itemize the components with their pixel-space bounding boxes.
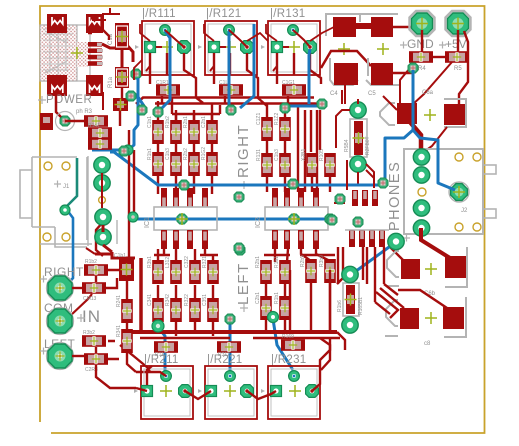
- wire R5 down-left: [412, 62, 452, 105]
- resistor C1Z1: [256, 113, 273, 141]
- IC1 top pads: [161, 188, 208, 207]
- resistor R321: [202, 256, 219, 284]
- svg-text:R5: R5: [454, 66, 462, 72]
- resistor R105: [319, 149, 336, 177]
- resistor R1b1: [147, 148, 164, 176]
- wire horizontal bus y103: [155, 102, 320, 105]
- capacitor C1L1 under VR121: [219, 80, 243, 96]
- diode D1 (left edge): [40, 113, 53, 130]
- donut right of IC2: [388, 233, 404, 249]
- wire left grid to bottom bus: [158, 322, 213, 336]
- wire top into J2 pad1: [419, 137, 423, 157]
- J1 pad B: [94, 175, 110, 191]
- svg-text:C5: C5: [368, 91, 376, 97]
- resistor R4 (GND jumper): [409, 51, 433, 72]
- wire J2 pad4 down: [421, 228, 450, 258]
- C8 cross: [425, 312, 437, 324]
- svg-text:R1b6: R1b6: [337, 300, 343, 312]
- J2 drill holes: [418, 153, 481, 231]
- plus RIGHT in: [40, 276, 47, 283]
- wire IC1 pads down to grid: [158, 249, 213, 298]
- wire mid columns: [267, 104, 330, 192]
- resistor C2b1: [201, 116, 218, 144]
- plus LEFT: [240, 304, 248, 312]
- capacitor C5 silkscreen: [330, 58, 400, 85]
- plus J1: [54, 181, 61, 188]
- svg-text:C341: C341: [147, 294, 153, 306]
- wire inside VR231b: [273, 30, 310, 71]
- resistor X2B1: [301, 149, 318, 177]
- wire bottom bus 1: [130, 330, 337, 334]
- wire R2FB region: [336, 90, 374, 184]
- plus LEFT in: [40, 348, 47, 355]
- svg-text:R1b1: R1b1: [274, 292, 280, 304]
- wire diagonals to C8: [375, 265, 398, 314]
- wire red chain left of VR121: [204, 24, 268, 41]
- resistor R0a: [84, 115, 108, 127]
- via L2: [353, 217, 363, 227]
- via V5: [408, 63, 418, 73]
- resistor C341: [147, 294, 164, 322]
- wire R4 down-left: [400, 62, 415, 103]
- via ring mid-bottom: [268, 312, 279, 323]
- svg-text:R2FB0T: R2FB0T: [365, 136, 371, 155]
- svg-text:R3b1: R3b1: [147, 256, 153, 268]
- resistor C1b3: [165, 148, 182, 176]
- svg-text:IN: IN: [82, 307, 101, 326]
- via at left grid: [152, 320, 164, 332]
- svg-text:C1b1: C1b1: [147, 116, 153, 128]
- resistor R1G2: [201, 147, 218, 176]
- wire VR111 pads down: [150, 53, 196, 84]
- wire into C8: [376, 288, 404, 318]
- wire thick left column pair: [129, 130, 134, 258]
- resistor R142: [88, 138, 112, 150]
- svg-text:IC1: IC1: [144, 217, 151, 228]
- wire stair to VR211: [120, 345, 150, 372]
- via A: [137, 105, 147, 115]
- trimmer VR221: [198, 354, 257, 419]
- resistor R1c1b: [274, 292, 291, 320]
- wire left diagonal: [86, 173, 102, 254]
- wire right column to VR231: [290, 270, 345, 370]
- svg-text:IC2: IC2: [255, 217, 262, 228]
- svg-text:|/R211: |/R211: [144, 354, 179, 366]
- C6a silkscreen: [380, 99, 466, 127]
- wire into C6b left: [390, 247, 405, 262]
- svg-text:R241: R241: [116, 295, 122, 307]
- X1 fingers silkscreen: [97, 43, 103, 66]
- svg-text:L312: L312: [165, 257, 171, 268]
- resistor R322: [184, 294, 201, 322]
- wire blue to VR231: [273, 319, 293, 370]
- svg-text:C4: C4: [330, 91, 338, 97]
- J2 pad 4: [413, 220, 429, 236]
- resistor R341: [116, 325, 133, 353]
- resistor L312: [165, 257, 182, 284]
- wire blue J1 to RIGHT pad: [66, 210, 73, 286]
- IC2 body: [265, 207, 328, 230]
- wire C5 to via: [393, 68, 413, 73]
- wire J1 pads down-right: [95, 225, 135, 258]
- via I: [325, 214, 335, 224]
- donut above R2FB: [350, 102, 366, 118]
- wire +5V pad down: [457, 30, 459, 52]
- capacitor C1a: [108, 23, 129, 50]
- IC1 bottom pads: [161, 230, 208, 249]
- resistor R5 (+5V jumper): [445, 51, 469, 72]
- resistor R2b2: [183, 148, 200, 176]
- svg-text:|/R131: |/R131: [270, 8, 305, 20]
- resistor R2c1: [255, 256, 272, 284]
- wire bus drop to R2b1: [172, 97, 220, 120]
- wire LEFT pad to C: [72, 355, 84, 357]
- wire blue VR131 right pad down: [309, 49, 310, 104]
- X1 shield pad bottom-left: [47, 75, 67, 96]
- X1 centre cross: [71, 47, 83, 59]
- IC2 top pads: [272, 188, 319, 207]
- X1 shield pad bottom-right: [86, 75, 103, 96]
- wire X1 to C1a: [102, 44, 133, 62]
- resistor R3b2 in: [82, 330, 106, 347]
- wire top VR111 left: [134, 24, 150, 80]
- svg-text:R131: R131: [256, 149, 262, 161]
- svg-text:RIGHT: RIGHT: [235, 124, 252, 178]
- svg-text:R1b1: R1b1: [274, 256, 280, 268]
- wire blue C6a to phones: [383, 130, 455, 190]
- cross C5: [377, 43, 389, 55]
- svg-text:CM13: CM13: [83, 296, 97, 302]
- via E: [317, 99, 327, 109]
- wire blue left column: [92, 78, 138, 150]
- resistor R1a: [108, 67, 129, 88]
- svg-text:R5B4: R5B4: [344, 139, 350, 152]
- C6b silkscreen: [386, 247, 467, 287]
- X1 shield pad top-right: [86, 14, 103, 33]
- svg-text:R2b1: R2b1: [255, 256, 261, 268]
- svg-text:X2B1: X2B1: [301, 149, 307, 161]
- resistor R169: [281, 334, 305, 351]
- J1 pad D: [95, 229, 111, 245]
- via at left grid right: [225, 314, 235, 324]
- wire C6a plus: [410, 122, 421, 150]
- via F: [119, 146, 129, 156]
- resistor R241: [116, 295, 133, 323]
- C8 pads: [400, 307, 464, 329]
- svg-text:R3b9: R3b9: [319, 255, 325, 267]
- IC1 body: [154, 207, 217, 230]
- resistor R2bV: [300, 254, 317, 283]
- svg-text:C1b3: C1b3: [165, 148, 171, 160]
- svg-text:R4: R4: [418, 66, 426, 72]
- svg-text:+5V: +5V: [445, 37, 467, 51]
- plus near PHONES: [403, 235, 410, 242]
- J1 body bottom: [40, 156, 117, 246]
- C6b cross: [425, 263, 437, 275]
- wire blue J2 to C6b region: [352, 242, 396, 274]
- wire blue C6a vertical: [412, 70, 415, 132]
- via C: [226, 105, 236, 115]
- via H: [288, 179, 298, 189]
- via J: [234, 192, 244, 202]
- via N: [335, 194, 345, 204]
- svg-text:R321: R321: [202, 256, 208, 268]
- wire C6a right pad down: [425, 127, 447, 151]
- svg-text:R322: R322: [184, 294, 190, 306]
- capacitor C1b1 in (vertical): [114, 253, 134, 281]
- wire blue VR121 to via: [240, 24, 254, 108]
- X1 signal pads: [88, 42, 102, 66]
- C6a cross: [424, 109, 436, 121]
- wire POWER to via: [56, 92, 62, 118]
- wire C8 right top: [398, 290, 447, 308]
- svg-text:R3b2: R3b2: [83, 330, 95, 336]
- plus RIGHT: [240, 181, 248, 189]
- wire to VR211 region: [96, 365, 150, 388]
- resistor C1b3b: [274, 149, 291, 177]
- wire blue via to VR211: [158, 327, 165, 374]
- via B: [153, 107, 163, 117]
- svg-text:R1a: R1a: [108, 76, 114, 88]
- cross C4: [338, 43, 350, 55]
- X1 shield pad top-left: [47, 14, 67, 33]
- resistor R1b2: [165, 116, 182, 144]
- wire mid-bottom grid columns: [266, 282, 330, 332]
- J1 pad C: [95, 209, 111, 225]
- IC1 centre via: [176, 213, 188, 225]
- wire blue diag to bus: [110, 152, 383, 185]
- capacitor C4 pads: [333, 17, 393, 37]
- resistor R131b: [256, 149, 273, 177]
- svg-text:C1R1: C1R1: [156, 80, 169, 86]
- svg-text:|/R121: |/R121: [206, 8, 241, 20]
- via D: [280, 103, 290, 113]
- via L: [327, 215, 337, 225]
- svg-text:R1b1: R1b1: [147, 148, 153, 160]
- wire X1 bundle: [88, 30, 109, 40]
- wire inside VR121: [210, 30, 247, 71]
- wire grid columns right channel: [158, 104, 212, 194]
- resistor R342: [165, 294, 182, 322]
- wire +5V right drop: [459, 31, 468, 104]
- svg-text:|/R221: |/R221: [207, 354, 242, 366]
- wire cap row to resistor grid: [158, 96, 288, 122]
- wire inside VR111: [146, 30, 184, 71]
- wire RIGHT pad to C: [72, 287, 84, 289]
- wire bottom bus 2: [140, 337, 340, 339]
- svg-text:R2b1: R2b1: [183, 116, 189, 128]
- wire C4 to GND pad: [393, 26, 412, 28]
- resistor R312: [217, 341, 241, 358]
- wire VR211 left entry: [136, 372, 166, 391]
- via V1: [56, 112, 75, 131]
- IC2 right pads upper group: [352, 190, 378, 206]
- wire blue VR111 top to via: [160, 31, 170, 110]
- via G: [179, 180, 189, 190]
- resistor C322: [184, 256, 201, 284]
- wire blue via bus top: [285, 105, 322, 108]
- wire blue VR121 top to via: [228, 31, 231, 108]
- svg-text:R141: R141: [88, 123, 100, 129]
- capacitor C5 pads: [334, 63, 393, 85]
- svg-text:|/R111: |/R111: [142, 8, 176, 20]
- capacitor C4 silkscreen: [326, 14, 398, 36]
- svg-text:R341: R341: [116, 325, 122, 337]
- wire C1a to R1a: [121, 50, 124, 67]
- J1 body silkscreen: [20, 157, 87, 247]
- svg-text:R1b2: R1b2: [165, 116, 171, 128]
- pad LEFT: [47, 343, 74, 370]
- donut below R165: [342, 317, 358, 333]
- via above LEFT: [235, 245, 245, 255]
- IC2 centre via: [288, 213, 300, 225]
- J2 pad 1: [413, 149, 429, 165]
- resistor R112: [154, 341, 178, 358]
- capacitor R1b2 in: [84, 259, 108, 276]
- resistor R2b1: [183, 116, 200, 144]
- svg-text:C6a: C6a: [422, 90, 434, 96]
- donut above R165: [342, 266, 358, 282]
- svg-text:GND: GND: [407, 37, 434, 51]
- wires input network: [96, 270, 136, 372]
- svg-text:C322: C322: [184, 256, 190, 268]
- J1 pad A: [94, 157, 110, 173]
- wire blue via to VR221: [229, 320, 232, 374]
- svg-text:R1b2: R1b2: [85, 259, 97, 265]
- pad COM: [47, 308, 74, 335]
- wire VR121 pads down: [196, 53, 267, 106]
- svg-text:c8: c8: [424, 341, 431, 347]
- wire horizontal bus y98: [136, 98, 314, 105]
- pad +5V: [446, 11, 471, 36]
- wire loop C5: [321, 51, 371, 68]
- via pair left: [123, 145, 133, 155]
- svg-text:R342: R342: [165, 294, 171, 306]
- J2 pad 2: [413, 167, 429, 183]
- wire teal jack J1: [65, 158, 77, 208]
- svg-text:LEFT: LEFT: [235, 262, 252, 305]
- capacitor C2R3 in: [84, 353, 108, 373]
- wire into C6a left: [383, 96, 397, 110]
- resistor R2c2: [274, 256, 291, 284]
- J1 drill holes: [43, 162, 105, 241]
- wire VR231 right up: [312, 338, 330, 391]
- wire horizontals under ICs: [154, 254, 335, 257]
- resistor R3b9: [319, 255, 336, 283]
- svg-text:C2b1: C2b1: [201, 116, 207, 128]
- trimmer VR211: [134, 354, 193, 419]
- wire red right of VR131: [266, 24, 334, 41]
- wire blue branch to via144: [138, 97, 144, 106]
- svg-text:R165B1: R165B1: [358, 297, 364, 315]
- svg-text:R105: R105: [319, 149, 325, 161]
- svg-text:C1Z1: C1Z1: [256, 113, 262, 125]
- resistor C351: [202, 294, 219, 322]
- wire R2FB surroundings: [334, 82, 374, 203]
- trimmer VR131: [261, 8, 320, 75]
- plus mark near POWER: [38, 96, 46, 104]
- IC2 bottom pads: [272, 230, 319, 249]
- J2 pad 3: [413, 200, 429, 216]
- connector X1 body silkscreen: [40, 25, 90, 81]
- svg-text:R1Z2: R1Z2: [274, 113, 280, 125]
- svg-text:C2b1: C2b1: [255, 292, 261, 304]
- wire R4 to R5: [433, 56, 445, 58]
- wire VR211 links: [147, 366, 276, 399]
- C8 silkscreen: [385, 297, 466, 337]
- trimmer VR111: [135, 8, 194, 75]
- resistor C2c1: [255, 292, 272, 320]
- C6b pads: [401, 256, 466, 279]
- svg-text:J2: J2: [461, 208, 468, 214]
- pad GND: [410, 11, 435, 36]
- donut below R2FB: [350, 156, 366, 172]
- C6a pads: [397, 103, 465, 125]
- wire via V1 to R array: [65, 120, 87, 123]
- trimmer VR121: [198, 8, 257, 75]
- svg-text:C1b3: C1b3: [274, 149, 280, 161]
- via W2: [126, 91, 136, 101]
- svg-text:R2bV: R2bV: [300, 254, 306, 267]
- J2 body silkscreen: [404, 149, 496, 234]
- pads P2: [113, 98, 128, 111]
- svg-text:R2b2: R2b2: [183, 148, 189, 160]
- via IC1 left: [128, 212, 138, 222]
- svg-text:R169: R169: [282, 334, 294, 340]
- svg-text:C1b1: C1b1: [114, 253, 126, 259]
- svg-text:ph R3: ph R3: [76, 109, 93, 115]
- J1 small pad: [60, 205, 70, 215]
- svg-text:C351: C351: [202, 294, 208, 306]
- capacitor C1R1 in: [82, 282, 106, 302]
- IC2 right pads: [345, 230, 389, 247]
- wire R1a chain down: [120, 88, 122, 126]
- trimmer VR231: [261, 354, 320, 419]
- wire blue through ICs: [136, 218, 330, 221]
- wire left vertical feeder: [139, 258, 143, 332]
- svg-text:PHONES: PHONES: [387, 161, 403, 231]
- wire COM pad diag: [70, 294, 92, 316]
- svg-text:POWER: POWER: [46, 94, 92, 106]
- svg-text:R1G2: R1G2: [201, 147, 207, 160]
- wire GND pad down: [421, 30, 423, 52]
- resistor R3b1: [147, 256, 164, 284]
- pad RIGHT: [47, 275, 74, 302]
- wire VR131 pads down: [277, 53, 321, 84]
- capacitor C1G1 under VR131: [282, 80, 306, 96]
- J2 sleeve pad: [449, 182, 469, 202]
- wire donut column down: [96, 222, 103, 256]
- wire top red bundle POWER to VR: [92, 8, 120, 110]
- via W1: [131, 69, 141, 79]
- resistor R1Z2: [274, 113, 291, 141]
- via M: [378, 178, 388, 188]
- svg-text:J1: J1: [63, 184, 70, 190]
- plus IN: [77, 314, 85, 322]
- svg-text:C1G1: C1G1: [282, 80, 295, 86]
- via K: [234, 243, 244, 253]
- resistor R141 pair top: [88, 123, 112, 139]
- resistor C1b1: [147, 116, 164, 144]
- capacitor C1R1 under VR111: [156, 80, 180, 96]
- svg-text:|/R231: |/R231: [271, 354, 306, 366]
